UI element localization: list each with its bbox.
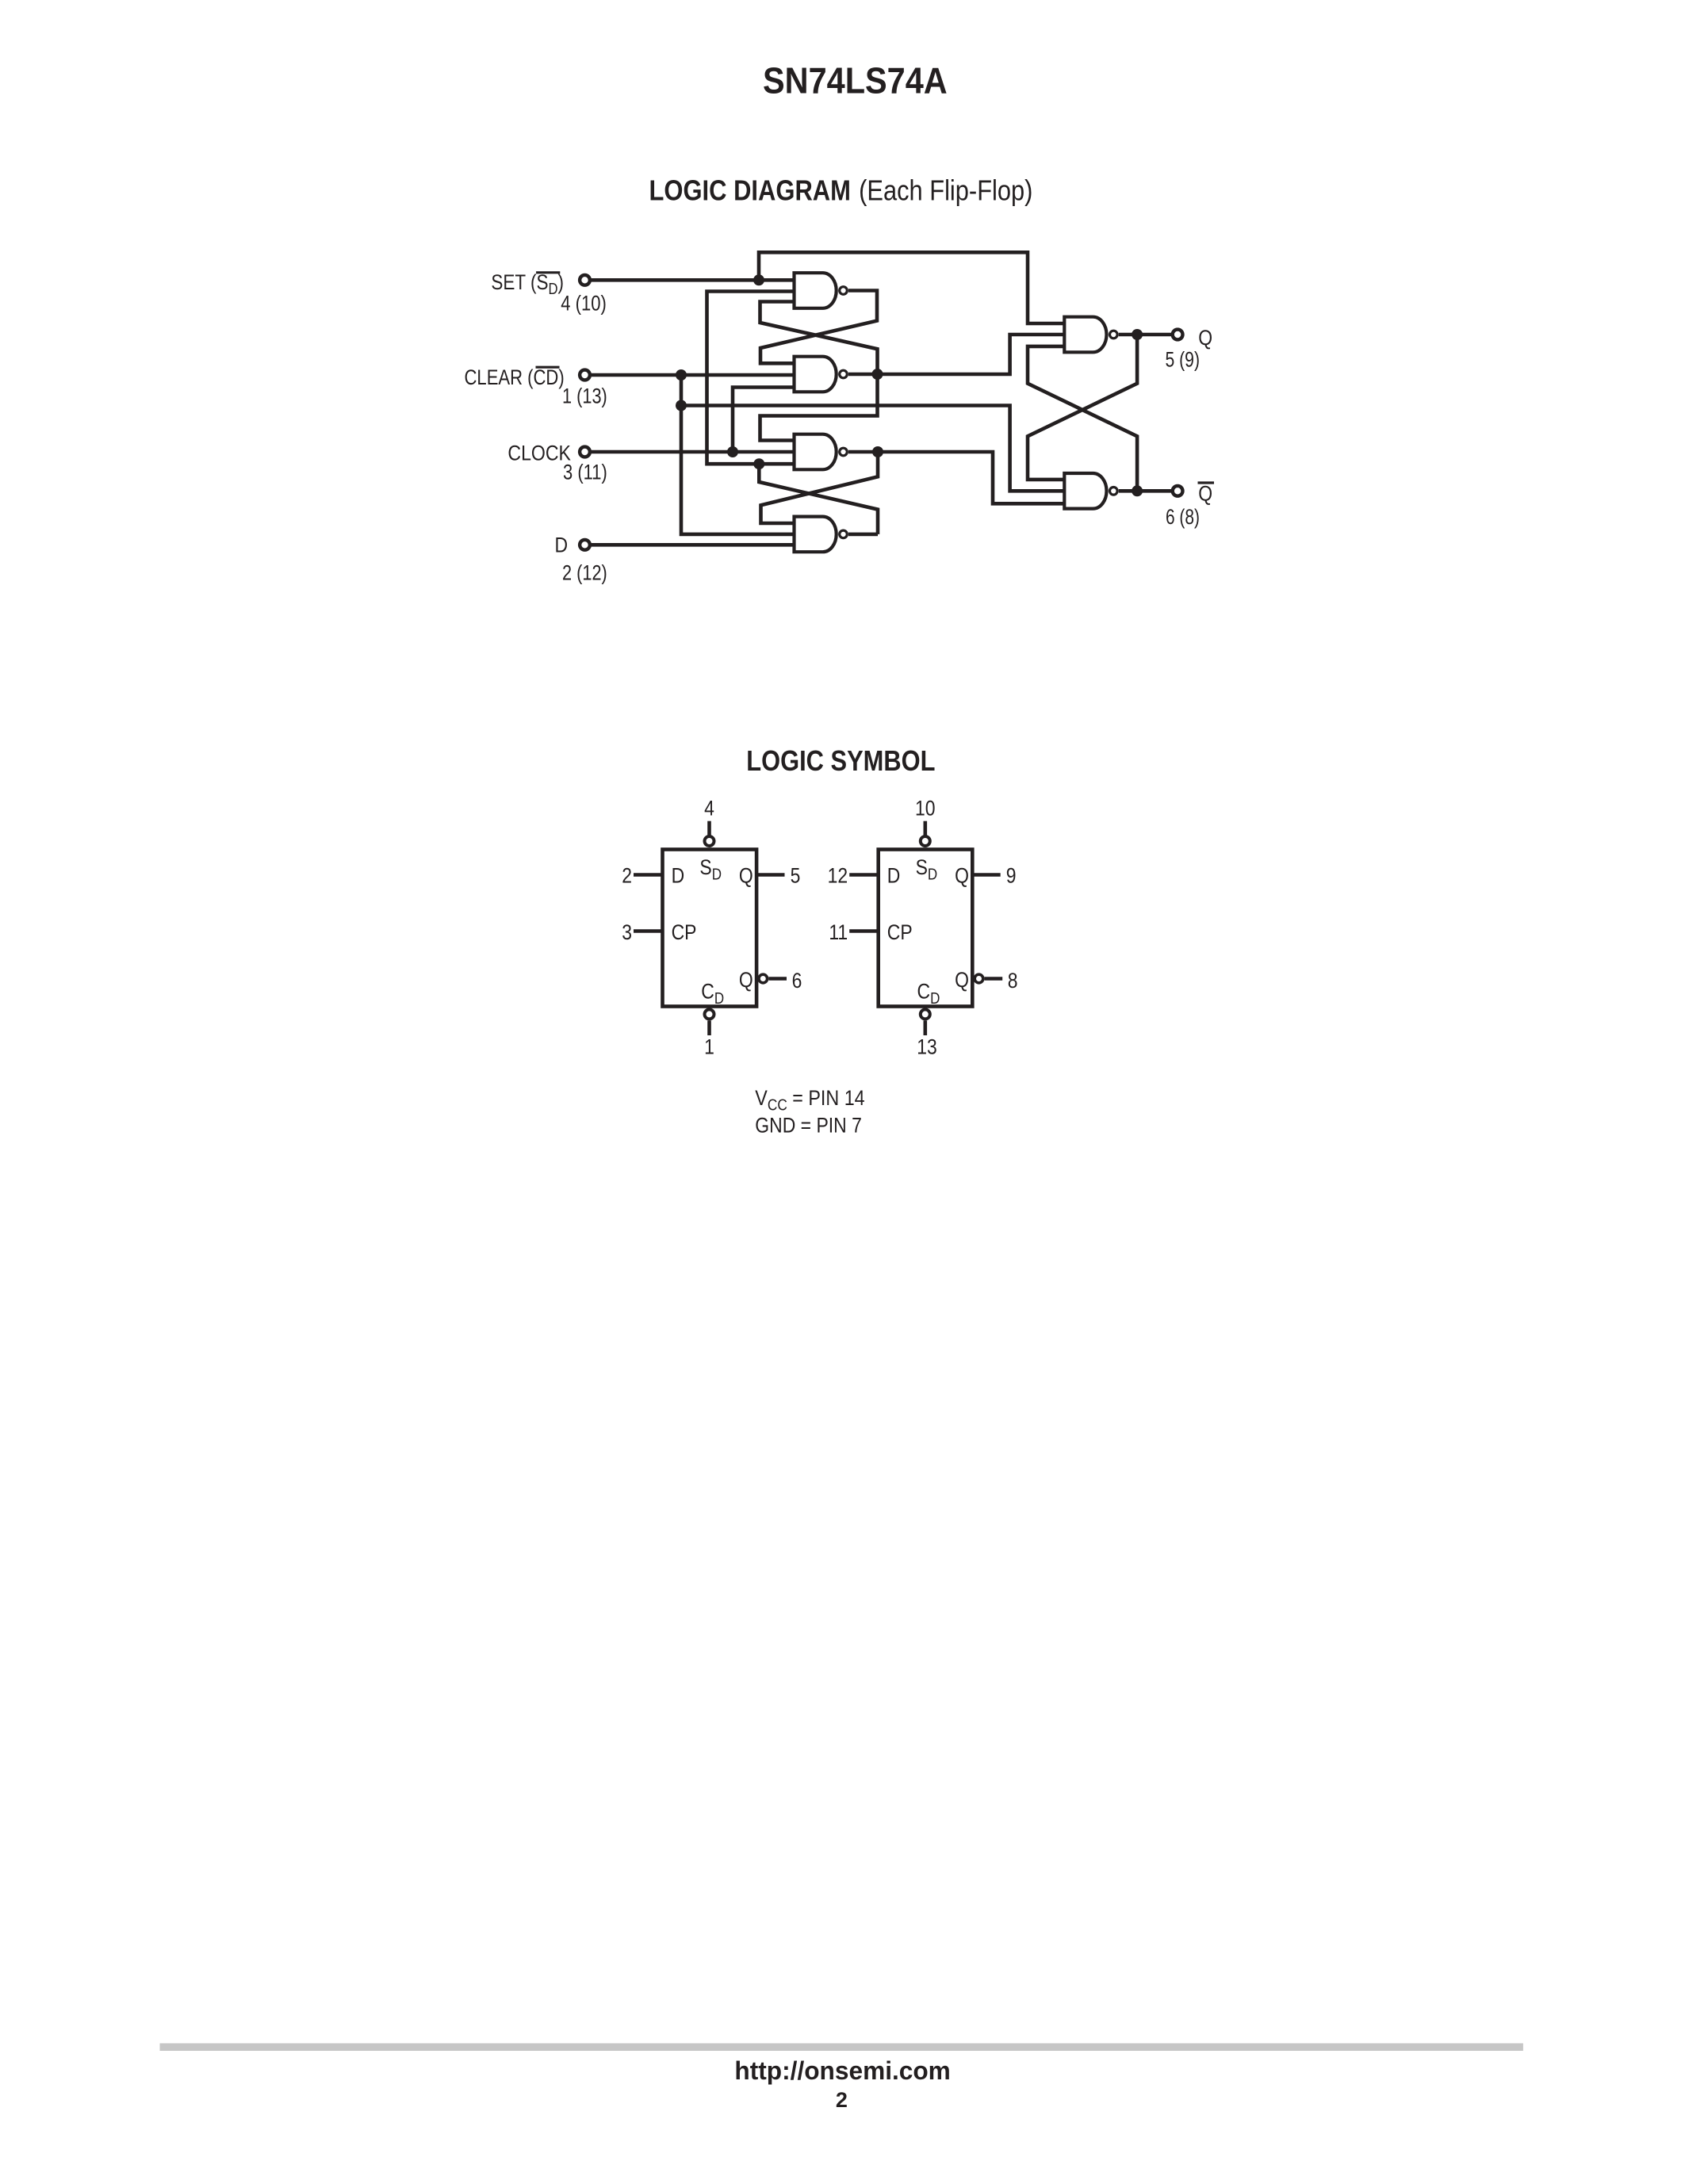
wire G4 output to gate G3 input 3	[759, 462, 794, 466]
wire G1 output cross-couple to gate G2 input 1	[760, 291, 877, 364]
svg-text:CP: CP	[887, 920, 913, 944]
svg-text:6 (8): 6 (8)	[1166, 506, 1200, 530]
svg-text:2: 2	[622, 864, 632, 888]
pin 10 SD input stub	[924, 821, 928, 836]
wire CLOCK to gate G3 input 2	[590, 450, 795, 454]
svg-text:D: D	[887, 864, 901, 888]
nand gate G1 (set latch)	[795, 273, 837, 308]
svg-text:GND = PIN 7: GND = PIN 7	[755, 1114, 862, 1138]
svg-text:9: 9	[1006, 864, 1017, 888]
svg-text:Q: Q	[955, 864, 969, 888]
svg-text:Q: Q	[955, 968, 969, 992]
svg-text:5: 5	[791, 864, 801, 888]
wire G2 output cross-couple to gate G1 input 3	[760, 302, 878, 375]
svg-text:8: 8	[1008, 969, 1018, 993]
terminal Q output, pin 5 (9)	[1173, 330, 1183, 340]
footer rule	[160, 2044, 1523, 2052]
wire G2 output to corner	[848, 373, 878, 377]
svg-text:6: 6	[792, 969, 802, 993]
wire D to gate G4 input 3	[590, 543, 795, 547]
svg-text:(Each Flip-Flop): (Each Flip-Flop)	[859, 175, 1032, 207]
node G2 output junction (junction)	[872, 369, 883, 380]
pin 13 CD input stub	[924, 1020, 928, 1035]
svg-text:2: 2	[836, 2088, 848, 2112]
wire G4 output feedback up to gate G1 input 2	[707, 292, 795, 465]
flip-flop symbol box (second flip-flop U1b)	[879, 850, 973, 1007]
node CLEAR junction (junction)	[676, 369, 687, 381]
svg-text:4: 4	[704, 797, 714, 820]
wire CLEAR branch down to gate G4 input 2	[681, 375, 795, 534]
pin 8 Q-bar output bubble and lead	[975, 974, 983, 983]
nand gate G6 (Q-bar output latch)	[1064, 473, 1106, 509]
wire SET to gate G1 input 1	[590, 278, 795, 282]
svg-text:3 (11): 3 (11)	[563, 461, 607, 485]
pin 9 Q output lead	[972, 873, 1000, 877]
wire G5 output to Q terminal	[1119, 333, 1172, 337]
svg-text:1 (13): 1 (13)	[562, 385, 607, 409]
svg-text:LOGIC SYMBOL: LOGIC SYMBOL	[746, 746, 935, 778]
wire G4 output cross-couple up to junction	[759, 464, 878, 534]
svg-text:D: D	[672, 864, 685, 888]
wire Q-bar cross-couple to gate G5 input 3	[1028, 346, 1137, 491]
terminal D input, pin 2 (12)	[580, 540, 590, 550]
flip-flop symbol box (first flip-flop U1a)	[663, 850, 757, 1007]
svg-text:Q: Q	[1198, 326, 1212, 350]
nand gate G5 (Q output latch)	[1064, 317, 1106, 353]
pin 2 D input lead	[634, 873, 663, 877]
nand gate G2 (clear latch)	[795, 357, 837, 392]
svg-text:LOGIC DIAGRAM: LOGIC DIAGRAM	[649, 175, 851, 207]
pin 1 CD input stub	[707, 1020, 711, 1035]
node G3 output junction (junction)	[872, 446, 883, 457]
node Q output junction (junction)	[1132, 329, 1143, 340]
node CLOCK junction (junction)	[727, 446, 738, 457]
svg-text:4 (10): 4 (10)	[561, 292, 607, 316]
svg-text:2 (12): 2 (12)	[562, 561, 607, 585]
wire SET feedback over top to gate G5 input 1	[759, 252, 1064, 323]
svg-text:CLEAR (CD): CLEAR (CD)	[465, 366, 565, 390]
terminal CLOCK input, pin 3 (11)	[580, 447, 590, 457]
wire G3 output to gate G6 input 2	[848, 452, 1064, 503]
svg-text:11: 11	[829, 920, 848, 944]
wire G6 output to Q-bar terminal	[1119, 489, 1172, 493]
svg-text:12: 12	[828, 864, 848, 888]
pin 6 Q-bar output bubble and lead	[759, 974, 768, 983]
svg-text:CLOCK: CLOCK	[507, 442, 571, 465]
svg-text:5 (9): 5 (9)	[1166, 348, 1200, 372]
svg-text:SN74LS74A: SN74LS74A	[763, 61, 948, 101]
node CLEAR lower junction (junction)	[676, 400, 687, 411]
svg-text:3: 3	[622, 920, 632, 944]
pin 3 CP input lead	[634, 929, 663, 933]
wire G4 output to corner	[848, 533, 878, 537]
wire G2 output to gate G5 input 2	[878, 335, 1065, 374]
nand gate G3 (clock latch)	[795, 434, 837, 470]
nand gate G4 (data latch)	[795, 517, 837, 553]
wire G2 output branch to gate G3 input 1	[760, 374, 878, 441]
pin 12 D input lead	[849, 873, 879, 877]
terminal CLEAR (CD) input, pin 1 (13)	[580, 370, 590, 381]
wire CLEAR branch to gate G6 input 3	[681, 406, 1064, 491]
pin 4 SD input stub	[707, 821, 711, 836]
node Q-bar output junction (junction)	[1132, 485, 1143, 496]
svg-text:D: D	[555, 534, 569, 557]
pin 11 CP input lead	[849, 929, 879, 933]
wire G3 output cross-couple to gate G4 input 1	[761, 452, 879, 523]
svg-text:1: 1	[704, 1035, 714, 1059]
pin 5 Q output lead	[756, 873, 784, 877]
svg-text:13: 13	[917, 1035, 937, 1059]
svg-text:http://onsemi.com: http://onsemi.com	[734, 2056, 950, 2085]
svg-text:Q: Q	[739, 968, 753, 992]
terminal SET (SD) input, pin 4 (10)	[580, 275, 590, 285]
wire Q cross-couple to gate G6 input 1	[1028, 335, 1137, 480]
svg-text:CP: CP	[672, 920, 697, 944]
svg-text:Q: Q	[1198, 482, 1212, 506]
svg-text:Q: Q	[739, 864, 753, 888]
wire CLEAR to gate G2 input 2	[590, 373, 795, 377]
node G4 output junction (junction)	[753, 458, 764, 469]
terminal Q-bar output, pin 6 (8)	[1173, 486, 1183, 496]
svg-text:10: 10	[915, 797, 936, 820]
node SET junction (junction)	[753, 274, 764, 285]
wire CLOCK branch up to gate G2 input 3	[733, 388, 795, 453]
